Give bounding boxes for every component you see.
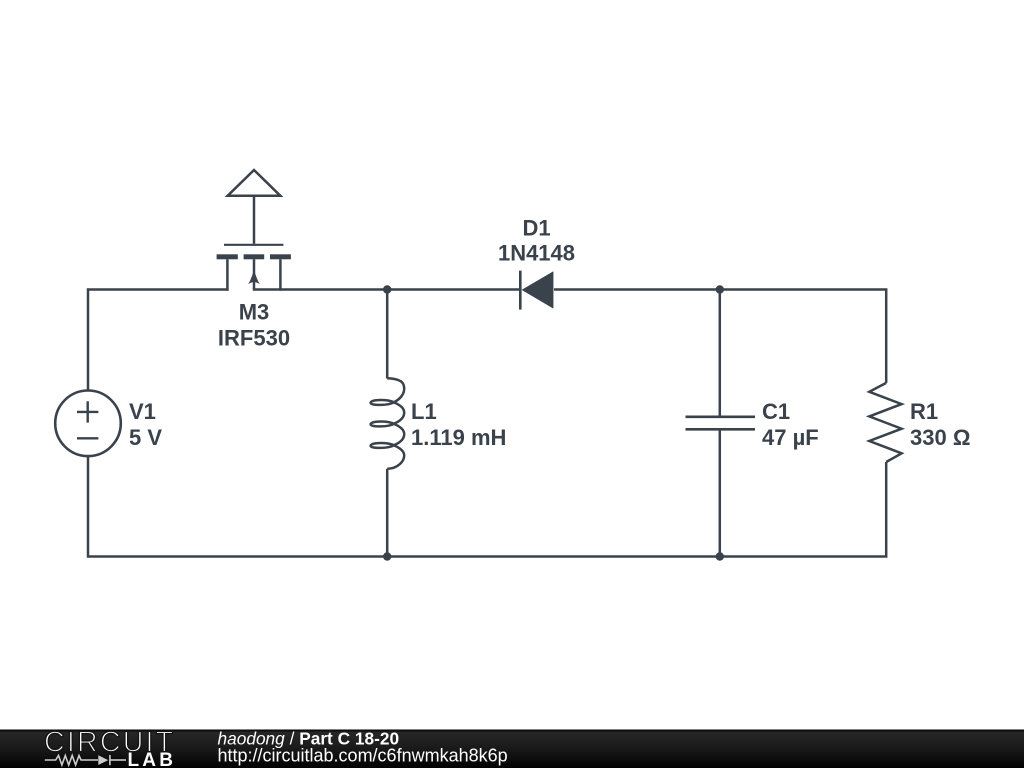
voltage source V1 circle	[55, 391, 121, 457]
svg-text:M3: M3	[239, 300, 270, 325]
voltage source V1 minus sign	[77, 437, 98, 439]
svg-text:http://circuitlab.com/c6fnwmka: http://circuitlab.com/c6fnwmkah8k6p	[218, 746, 508, 766]
svg-text:L1: L1	[411, 399, 437, 424]
wire capacitor bottom lead	[719, 429, 722, 556]
wire inductor bottom lead	[386, 469, 389, 557]
voltage source V1 plus sign	[77, 401, 98, 422]
node junction dot C1 bottom	[716, 552, 724, 560]
wire capacitor top lead	[719, 290, 722, 417]
diode D1 cathode bar	[519, 271, 522, 310]
transistor M3 drain lead	[279, 259, 282, 290]
inductor L1 coil	[371, 378, 405, 468]
svg-text:330 Ω: 330 Ω	[910, 425, 970, 450]
transistor M3 gate lead	[253, 197, 256, 244]
wire top-left from V1 to M3 source	[88, 290, 229, 390]
wire inductor top lead	[386, 290, 389, 379]
svg-text:1N4148: 1N4148	[498, 241, 575, 266]
logo resistor-diode icon	[45, 755, 126, 765]
transistor Q M3 gate input port triangle	[228, 170, 281, 196]
svg-text:5 V: 5 V	[129, 425, 162, 450]
svg-text:V1: V1	[129, 399, 156, 424]
node junction dot L1 top	[383, 285, 391, 293]
svg-text:IRF530: IRF530	[218, 326, 290, 351]
logo diode triangle	[98, 755, 108, 765]
transistor M3 channel segment body	[244, 254, 265, 259]
transistor M3 gate bar	[224, 244, 283, 246]
svg-text:R1: R1	[910, 399, 938, 424]
capacitor C1 bottom plate	[686, 428, 756, 431]
node junction dot C1 top	[716, 285, 724, 293]
node junction dot L1 bottom	[383, 552, 391, 560]
wire top-mid from M3 body/drain to D1 cathode	[253, 288, 521, 291]
transistor M3 channel segment drain	[270, 254, 291, 259]
svg-text:C1: C1	[762, 399, 790, 424]
wire left below V1, bottom rail, right below R1	[88, 457, 886, 557]
capacitor C1 top plate	[686, 415, 756, 418]
svg-text:1.119 mH: 1.119 mH	[411, 425, 506, 450]
wire top-right from D1 anode to R1	[554, 290, 886, 383]
transistor M3 channel segment source	[217, 254, 238, 259]
transistor M3 source lead	[226, 259, 229, 290]
transistor M3 body lead with arrow	[248, 259, 260, 289]
diode D1 triangle	[522, 271, 554, 308]
svg-text:D1: D1	[522, 216, 550, 241]
resistor R1 zigzag	[869, 383, 901, 462]
svg-text:LAB: LAB	[128, 750, 177, 768]
svg-text:47 µF: 47 µF	[762, 425, 819, 450]
